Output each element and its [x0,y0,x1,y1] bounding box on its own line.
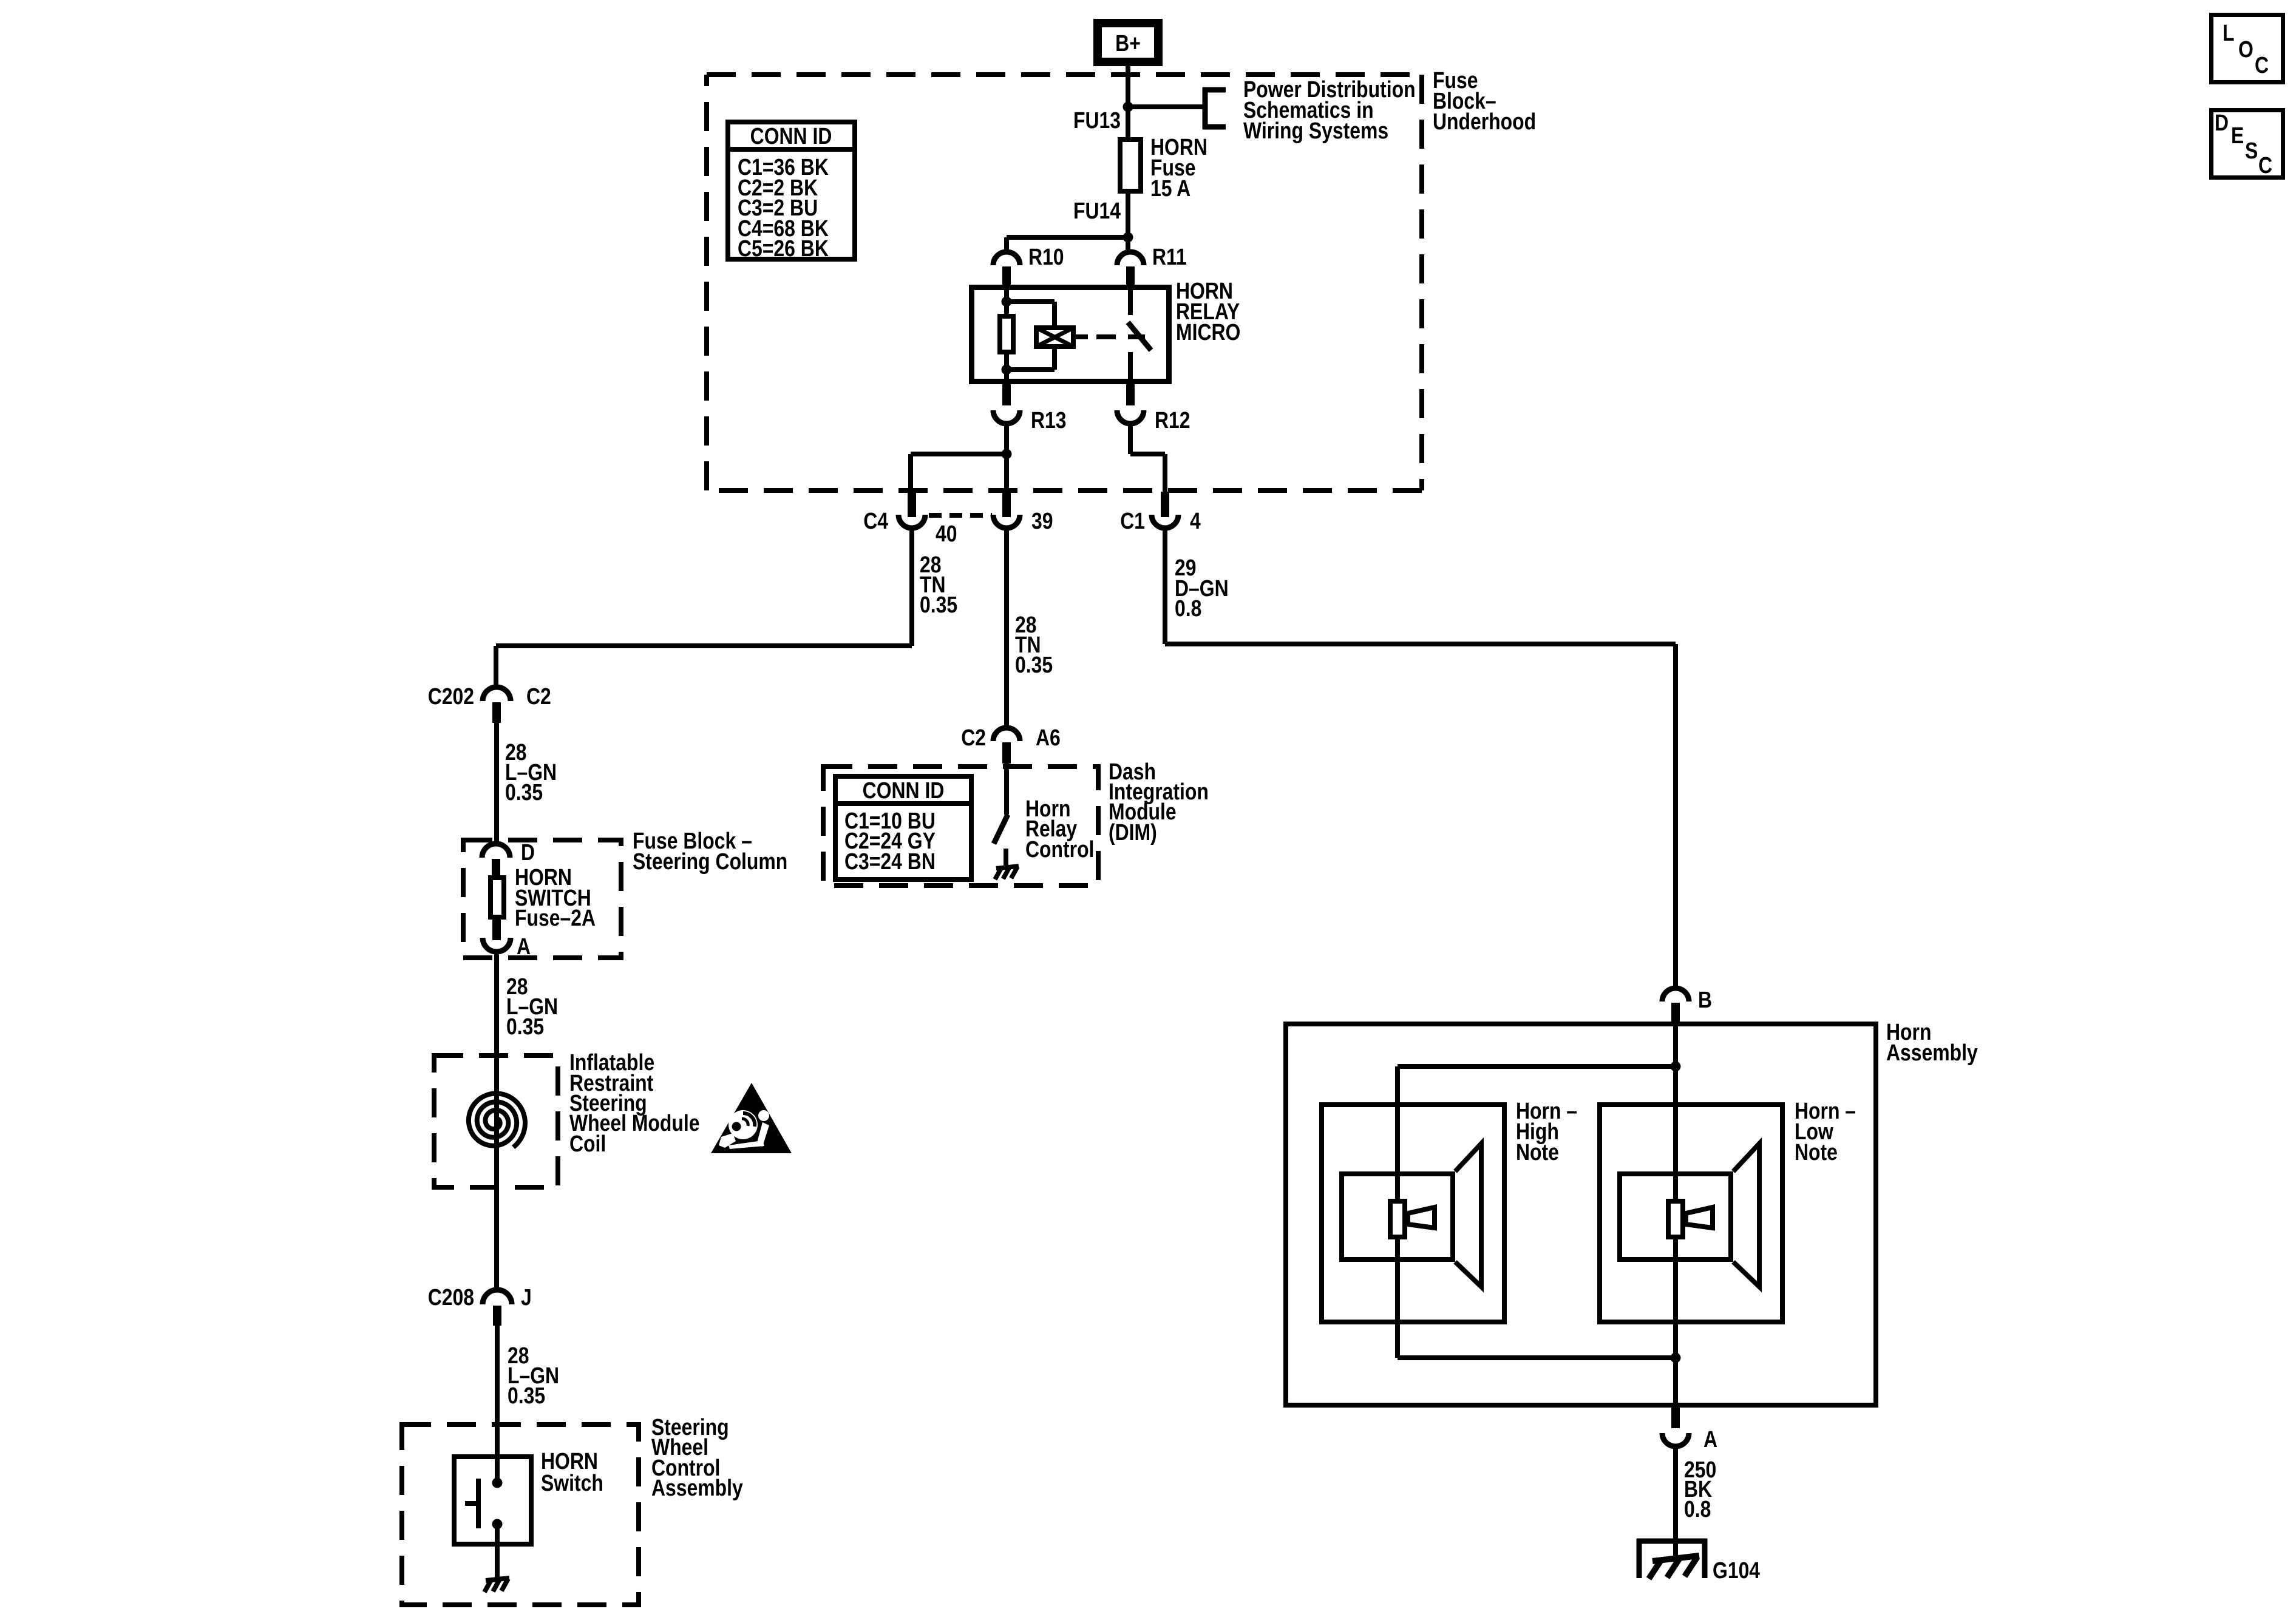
label 4 [1190,508,1201,534]
label CONN ID [750,123,832,149]
wire coil bottom to resistor [1007,367,1055,372]
wire down to C202 [494,646,498,688]
svg-text:Assembly: Assembly [1886,1040,1978,1065]
L [2223,20,2234,46]
label Power Distribution [1243,76,1416,102]
label 0.35 [1015,652,1053,677]
B+ [1115,30,1141,56]
label C3=2 BU [738,195,818,220]
label J [521,1284,532,1310]
label (DIM) [1109,819,1157,845]
svg-text:C2: C2 [526,683,551,709]
horn high note speaker symbol [1322,1105,1504,1322]
wire resistor bottom [1004,354,1009,384]
svg-text:4: 4 [1190,508,1201,534]
label HORN [541,1448,598,1474]
label 28 [1015,612,1037,637]
connector D arc [482,844,510,858]
svg-text:Steering Column: Steering Column [633,849,787,874]
label 15 A [1150,175,1190,201]
svg-text:B+: B+ [1115,30,1141,56]
connector dashed tie 40-39 [929,513,992,518]
relay switch contact bottom [1128,352,1133,384]
fuse HORN SWITCH Fuse-2A [491,878,504,917]
ground DIM internal [995,866,1019,879]
label Wiring Systems [1243,118,1388,143]
svg-text:Switch: Switch [541,1470,603,1496]
label Fuse-2A [515,905,596,930]
svg-text:Note: Note [1795,1139,1838,1165]
E [2231,123,2244,148]
label D [521,839,535,865]
connector A arc [483,938,511,952]
label Fuse Block - [633,828,752,853]
connector R11 arc [1117,252,1144,265]
svg-text:D: D [2215,110,2229,135]
svg-text:Assembly: Assembly [651,1475,743,1500]
label MICRO [1176,319,1240,345]
connector R13 pin [1002,384,1011,405]
label D-GN [1175,575,1229,601]
label Note [1516,1139,1559,1165]
connector A pin [492,920,501,940]
label HORN [1176,278,1233,303]
label HORN [515,864,572,890]
wire switch to ground [495,1524,500,1579]
label C4=68 BK [738,215,829,241]
svg-text:C: C [2258,152,2272,178]
horn switch contact top [492,1478,503,1488]
svg-text:0.8: 0.8 [1175,595,1201,621]
label B [1698,987,1712,1012]
svg-text:MICRO: MICRO [1176,319,1240,345]
label Note [1795,1139,1838,1165]
svg-text:S: S [2245,138,2258,163]
svg-text:C1: C1 [1120,508,1145,534]
connector C1 pin 4 [1161,492,1169,517]
connector A pin horn [1671,1408,1680,1428]
svg-text:C3=24 BN: C3=24 BN [844,849,936,874]
svg-text:D: D [521,839,535,865]
node horn parallel top [1671,1062,1681,1072]
label FU13 [1073,107,1121,133]
svg-text:(DIM): (DIM) [1109,819,1157,845]
wire down to horn B terminal [1673,644,1678,989]
DIM driver contact top [1004,764,1009,815]
svg-text:Underhood: Underhood [1433,109,1536,134]
label L-GN [506,994,558,1019]
label FU14 [1073,198,1121,223]
wire high note horn return [1398,1355,1676,1360]
label 28 [920,552,942,577]
connector C4 pin 40 [908,492,916,517]
CONN ID table DIM [835,776,971,879]
wire B+ to HORN fuse [1126,62,1130,140]
svg-text:0.35: 0.35 [1015,652,1053,677]
C [2258,152,2272,178]
svg-text:J: J [521,1284,532,1310]
svg-text:0.35: 0.35 [508,1383,545,1408]
connector B arc [1662,988,1689,1001]
label Horn - [1516,1098,1577,1123]
label C4 [863,508,888,534]
svg-text:CONN ID: CONN ID [750,123,832,149]
label R13 [1031,407,1067,433]
label A [1703,1426,1717,1452]
fuse FU-HORN 15A [1120,140,1141,191]
DESC reference box [2212,110,2283,178]
label C202 [428,683,474,709]
svg-text:Coil: Coil [569,1131,606,1156]
Dash Integration Module dashed box [823,767,1098,886]
label Horn - [1795,1098,1856,1123]
connector C202 pin [492,702,501,723]
DIM driver contact bottom [1004,849,1008,867]
label 28 [506,974,528,999]
wire branch to pin 40 [911,452,1007,456]
label 0.35 [508,1383,545,1408]
svg-text:0.8: 0.8 [1684,1496,1711,1522]
connector A arc horn [1662,1433,1689,1446]
relay coil (box with X) [1036,328,1073,347]
label 28 [508,1343,529,1368]
label 0.35 [505,779,543,805]
connector R11 pin [1126,266,1135,285]
connector R10 arc [993,252,1020,265]
label C2=2 BK [738,175,818,200]
wire 28 L-GN to horn switch [495,1326,500,1485]
node 39/40 branch [1002,449,1012,459]
label 0.8 [1175,595,1201,621]
wire 28 TN from C4 [909,528,914,646]
node coil top junction [1002,297,1012,307]
relay switch blade [1128,322,1151,350]
off-page reference bracket (Power Distribution) [1203,87,1226,129]
wire coil lead bottom [1052,349,1057,370]
svg-text:R10: R10 [1028,244,1064,269]
horn low note speaker symbol [1600,1105,1782,1322]
svg-text:A6: A6 [1036,725,1061,750]
connector pin 39 [1002,492,1011,517]
label TN [1015,632,1041,657]
node horn parallel bottom [1671,1353,1681,1363]
wire pin40 to block edge [908,454,913,493]
wire run left [496,643,912,648]
svg-text:0.35: 0.35 [506,1014,544,1039]
wire R12 jog [1130,452,1165,456]
svg-text:B: B [1698,987,1712,1012]
coil actuator stub [1076,334,1088,339]
connector R10 pin [1002,266,1011,285]
wire to power distribution reference [1128,104,1205,109]
label Underhood [1433,109,1536,134]
connector 39 arc [993,515,1020,528]
connector R12 pin [1126,384,1135,405]
label Horn [1886,1019,1931,1045]
label R12 [1155,407,1190,433]
label Fuse [1433,67,1478,93]
B+ battery feed box [1098,23,1158,62]
wire 28 L-GN to fuse block steering [494,723,499,845]
label 0.35 [920,592,957,617]
label C1=10 BU [844,808,936,833]
svg-text:FU14: FU14 [1073,198,1121,223]
svg-text:Note: Note [1516,1139,1559,1165]
horn switch contact bottom [492,1519,503,1530]
svg-text:40: 40 [936,521,957,546]
wire fuse to FU14 node [1126,194,1130,237]
wire FU14 to R10 branch [1007,235,1128,240]
wire 29 D-GN from C1 [1163,528,1167,644]
label High [1516,1119,1559,1144]
svg-text:Control: Control [1025,836,1094,862]
resistor relay internal [1000,316,1013,352]
svg-text:39: 39 [1031,508,1053,534]
svg-text:R13: R13 [1031,407,1067,433]
connector R12 arc [1117,410,1144,424]
wire 28 TN from 39 [1004,528,1009,729]
label R11 [1152,244,1187,269]
connector C4 arc [898,515,925,528]
wire pin39 to block edge [1004,454,1009,493]
label 28 [505,739,527,765]
label 40 [936,521,957,546]
svg-text:O: O [2238,36,2254,62]
svg-text:C202: C202 [428,683,474,709]
label Steering Column [633,849,787,874]
label C2 [526,683,551,709]
svg-text:C208: C208 [428,1284,474,1310]
label Steering [569,1090,647,1116]
svg-text:E: E [2231,123,2244,148]
svg-text:C: C [2255,52,2269,78]
connector B pin [1671,1003,1680,1024]
svg-text:R11: R11 [1152,244,1187,269]
Fuse Block-Steering Column dashed box [463,840,621,958]
node coil bottom junction [1002,365,1012,375]
label Schematics in [1243,97,1374,123]
label C3=24 BN [844,849,936,874]
wire coil lead down [1052,302,1057,328]
wire pin4 to block edge [1163,454,1167,493]
svg-text:L: L [2223,20,2234,46]
relay switch fixed contact top [1128,285,1133,315]
connector C208 arc [483,1290,512,1304]
C [2255,52,2269,78]
label Steering [651,1414,729,1440]
Horn Assembly box [1286,1024,1876,1405]
ground horn switch [484,1578,509,1592]
label Coil [569,1131,606,1156]
connector C2/A6 arc [993,728,1020,741]
svg-text:C2: C2 [961,725,986,750]
relay K-HORN box [972,288,1169,382]
label Assembly [651,1475,743,1500]
connector C202 arc [483,687,511,701]
svg-text:FU13: FU13 [1073,107,1121,133]
Steering Wheel Control Assembly dashed box [402,1425,639,1605]
wire through horn assembly [1673,1022,1678,1408]
label Switch [541,1470,603,1496]
svg-text:G104: G104 [1713,1557,1761,1583]
node FU13 junction [1123,102,1133,112]
horn switch box [454,1457,531,1544]
label Wheel [651,1434,708,1460]
label C2=24 GY [844,828,936,853]
wire 250 BK to G104 [1673,1446,1678,1557]
label Restraint [569,1070,654,1096]
label C2 [961,725,986,750]
label Dash [1109,759,1156,784]
svg-text:A: A [1703,1426,1717,1452]
wire down to R10 [1004,237,1009,253]
S [2245,138,2258,163]
label Inflatable [569,1049,654,1075]
wire run right to horn assembly [1165,642,1676,646]
label A [517,934,531,959]
connector C1 arc [1152,515,1178,528]
svg-text:0.35: 0.35 [505,779,543,805]
label Wheel Module [569,1110,699,1136]
label C1 [1120,508,1145,534]
wire to coil [1007,299,1055,304]
wire R12 down [1128,424,1133,454]
SIR warning triangle symbol [711,1083,792,1153]
wire relay coil top [1004,285,1009,314]
wire down to R11 [1126,237,1130,253]
CONN ID table header rule [725,147,857,152]
wire R13 down [1004,424,1009,454]
label RELAY [1176,299,1240,324]
node FU14 [1123,232,1133,243]
svg-text:0.35: 0.35 [920,592,957,617]
wire through clockspring coil [494,1053,499,1291]
svg-text:CONN ID: CONN ID [863,778,945,803]
label Control [651,1455,720,1480]
CONN ID DIM header rule [833,801,974,806]
O [2238,36,2254,62]
connector C2/A6 pin [1002,742,1011,764]
DIM horn relay control switch blade [994,815,1008,844]
label BK [1684,1476,1712,1502]
svg-text:A: A [517,934,531,959]
connector D pin [492,859,500,878]
label Integration [1109,779,1209,804]
label 0.35 [506,1014,544,1039]
svg-text:Fuse–2A: Fuse–2A [515,905,596,930]
connector C208 pin [493,1306,501,1326]
svg-text:C5=26 BK: C5=26 BK [738,236,829,261]
label HORN [1150,134,1207,160]
clockspring coil spiral [469,1094,525,1148]
label Fuse [1150,155,1195,180]
label Module [1109,799,1177,824]
LOC reference box [2212,15,2283,83]
label 39 [1031,508,1053,534]
Inflatable Restraint Steering Wheel Module Coil dashed box [434,1056,558,1187]
label A6 [1036,725,1061,750]
label L-GN [508,1363,559,1388]
label TN [920,572,946,597]
label Relay [1025,816,1078,841]
svg-text:C4: C4 [863,508,888,534]
wire 28 L-GN to coil [494,951,499,1056]
D [2215,110,2229,135]
label R10 [1028,244,1064,269]
label 0.8 [1684,1496,1711,1522]
label L-GN [505,759,557,785]
wire through high note horn [1395,1066,1400,1358]
label SWITCH [515,885,591,910]
connector R13 arc [993,410,1020,424]
wire to high note horn [1398,1064,1676,1069]
label 250 [1684,1457,1716,1482]
CONN ID table fuse block [728,122,855,259]
label CONN ID [863,778,945,803]
Fuse Block-Underhood dashed outline [707,75,1422,490]
svg-text:Wiring Systems: Wiring Systems [1243,118,1388,143]
svg-text:R12: R12 [1155,407,1190,433]
svg-text:15 A: 15 A [1150,175,1190,201]
label 29 [1175,555,1197,580]
label Horn [1025,796,1070,821]
label Control [1025,836,1094,862]
label C1=36 BK [738,154,829,180]
label G104 [1713,1557,1761,1583]
label C208 [428,1284,474,1310]
ground G104 symbol [1637,1539,1707,1579]
label Low [1795,1119,1833,1144]
relay actuator dashed link [1096,334,1145,339]
horn switch blade [465,1479,478,1528]
label C5=26 BK [738,236,829,261]
label Assembly [1886,1040,1978,1065]
label Block- [1433,88,1496,114]
